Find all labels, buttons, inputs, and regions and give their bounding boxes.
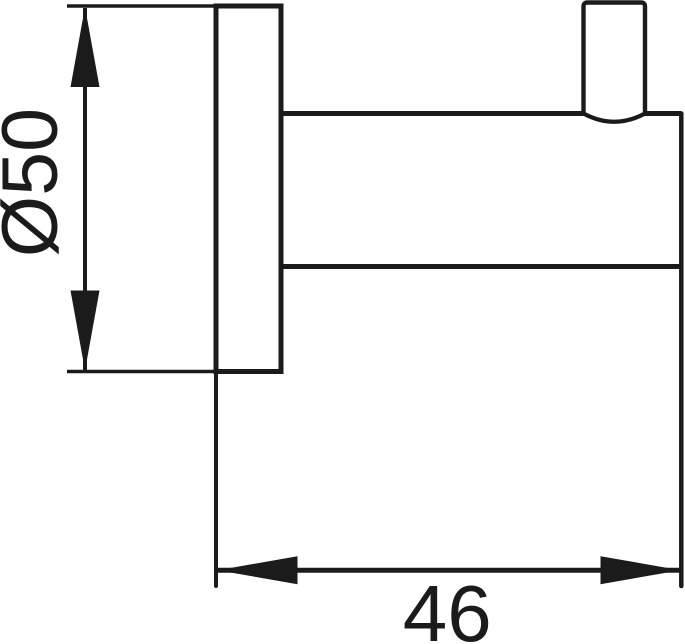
hook arm bottom edge	[281, 264, 681, 269]
extension line below plate for 46 dim	[214, 372, 218, 587]
extension line bottom of Ø50 dim	[67, 370, 216, 373]
46 arrowhead right	[601, 556, 681, 584]
post-arm intersection arc	[584, 114, 646, 122]
wall plate (rosette, side view)	[216, 6, 281, 372]
hook arm top edge	[281, 111, 584, 116]
Ø50 dimension line	[83, 8, 87, 370]
svg-text:46: 46	[403, 569, 492, 644]
svg-text:Ø50: Ø50	[0, 108, 74, 257]
hook post / pin	[584, 3, 646, 114]
46 dimension line	[218, 568, 680, 573]
extension line top of Ø50 dim	[67, 4, 216, 7]
Ø50 arrowhead up	[71, 7, 100, 87]
hook arm top edge right of post	[645, 111, 681, 116]
46 arrowhead left	[218, 556, 298, 584]
hook arm right edge + extension line for 46 dim	[679, 114, 684, 587]
Ø50 arrowhead down	[71, 291, 100, 371]
